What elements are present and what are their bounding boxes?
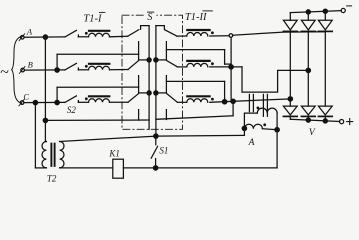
wire B riser [56,54,58,70]
winding T1-II row1 [187,30,214,36]
wire column 3 [324,31,326,106]
diode VD4 [283,106,297,119]
svg-text:V: V [309,128,316,138]
wire C drop to T2 [35,103,46,168]
diode VD5 [301,106,315,120]
node junction A [43,35,47,39]
node C terminal [19,91,30,106]
current transformer CT1 bars [249,94,253,111]
node junction aux R2 [222,100,226,104]
wire control bottom right [123,167,277,169]
transformer T2 secondary winding [60,142,64,168]
wire tap2 stub left [139,59,150,61]
contact hook right 3 [165,110,167,120]
svg-text:S2: S2 [67,105,77,115]
wire C aux line [57,86,139,88]
wire control top [60,135,245,141]
node junction A-aux [43,118,47,122]
wire U detour [242,67,308,92]
label T1-II [185,11,213,23]
svg-text:K1: K1 [108,148,120,158]
svg-text:A: A [248,138,255,148]
wire tap3 stub right [156,92,167,94]
node junction column1 [288,97,292,101]
wire row1 right [177,35,187,37]
contact hook left 1 [138,42,140,60]
wire A aux line [45,119,149,121]
wire row3 to rectifier column 1 [210,99,290,102]
contact hook left 2 [138,76,140,93]
wire aux R1 [166,50,231,65]
wire aux R3 [156,101,233,119]
winding T1-II row2 [187,61,214,67]
wire aux R2 [166,81,224,101]
node junction S-box drop [154,134,158,138]
wire tap3 stub left [139,92,150,94]
svg-text:S1: S1 [159,146,168,156]
label T1-I [83,12,105,24]
relay coil K1 [108,148,123,178]
switch blade B-main [128,61,138,70]
node junction B [55,68,59,72]
contact hook right 1 [165,42,167,60]
switch blade R1 [165,30,177,36]
wire row2 right [177,66,186,68]
label S [145,11,156,23]
diode VD6 [318,106,332,121]
node B terminal [19,59,32,73]
switch S2 contact B [65,63,89,70]
switch blade C-main [128,94,138,103]
node junction C1 [33,100,37,104]
node positive terminal [340,119,353,125]
node negative terminal [341,6,352,13]
diode VD2 [301,12,315,32]
wire row2 to U detour [210,66,242,68]
svg-text:T1-II: T1-II [185,12,207,23]
svg-text:S: S [147,12,152,23]
contact hook left 3 [138,110,140,121]
wire phase B [25,69,66,71]
node A terminal [19,27,33,41]
switch block S dashed enclosure [122,15,183,129]
node junction row2 star [229,65,233,69]
wire column 1 [289,31,291,106]
node tap3 dots [147,91,158,95]
node rail dots bottom [306,118,327,123]
switch S2 contact A [65,30,89,37]
wire B aux line [57,53,139,55]
winding CT secondary upper [244,107,277,129]
switch S1 [151,136,168,170]
svg-text:B: B [28,59,33,69]
node junction CT left [242,126,246,130]
node rail dots top [306,9,327,14]
wire (source brace to terminals) [12,36,22,103]
wire row1 to rectifier column 3 [233,32,325,35]
wire CT right drop [276,113,278,168]
switch blade A-main [128,30,139,37]
wire row1 to star point [210,35,229,37]
wire phase C [24,101,65,103]
node junction C2 [55,100,59,104]
winding T1-I phase A [85,31,128,37]
svg-text:A: A [26,27,33,37]
wire bus top foot left [141,26,150,30]
wire negative rail [290,11,341,13]
wire positive rail [290,119,339,121]
winding T1-I phase C [85,96,128,102]
wire row3 right [177,101,186,103]
wire phase A [24,36,65,38]
svg-text:T1-I: T1-I [83,13,102,24]
bus right [155,26,157,137]
diode VD1 [283,13,297,32]
wire tap2 stub right [156,59,167,61]
node tap2 dots [147,58,158,62]
node junction CT right [275,128,279,132]
svg-text:~: ~ [0,64,9,81]
wire star vertical [230,37,232,101]
svg-text:C: C [23,91,29,101]
transformer T2 core [51,144,54,166]
svg-text:T2: T2 [47,174,57,184]
switch blade R3 [167,94,178,103]
switch blade R2 [167,61,178,67]
node star circle [229,34,233,38]
node junction aux R3 [231,99,235,103]
node junction column2 [306,68,310,72]
winding T1-II row3 [187,96,214,102]
switch S2 contact C [65,96,89,115]
wire CT left drop [243,128,245,135]
wire control bottom left [60,167,113,169]
winding T1-I phase B [85,64,128,70]
current transformer CT2 bars [263,94,267,116]
contact hook right 2 [165,76,167,93]
wire A vertical feeder [44,37,46,141]
bus left [148,26,150,130]
winding CT secondary lower [244,123,277,129]
wire C riser [56,87,58,102]
diode VD3 [318,11,332,31]
wire column 2 [307,31,309,106]
wire bus top foot right [156,26,165,30]
transformer T2 primary winding [42,142,46,168]
